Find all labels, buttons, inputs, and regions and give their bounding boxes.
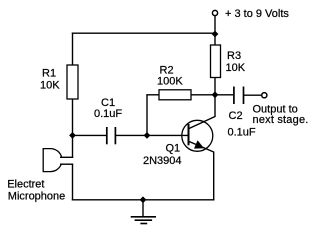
wire: node D down to R3 [214, 34, 216, 46]
transistor Q1 collector lead [189, 116, 216, 128]
svg-text:+ 3 to 9 Volts: + 3 to 9 Volts [225, 8, 289, 20]
transistor Q1 body circle [182, 120, 213, 151]
svg-text:10K: 10K [40, 80, 60, 92]
label Electret Microphone [7, 179, 65, 203]
svg-text:Electret: Electret [7, 179, 44, 191]
label Q1 2N3904 [143, 142, 182, 167]
microphone bottom lead [60, 163, 73, 165]
svg-text:R3: R3 [227, 50, 241, 62]
wire: mic bottom lead down to bottom rail [72, 164, 74, 200]
label R3 10K [226, 50, 246, 74]
microphone MIC body [43, 149, 61, 172]
svg-text:2N3904: 2N3904 [143, 155, 182, 167]
output label [253, 103, 309, 126]
label R2 100K [157, 65, 183, 88]
node E (ground junction) [140, 196, 147, 203]
wire: bottom rail [72, 199, 215, 201]
transistor Q1 base bar [188, 124, 190, 145]
svg-text:Q1: Q1 [166, 142, 181, 154]
wire: node C down to Q1 collector [214, 95, 216, 117]
ground [131, 200, 156, 224]
transistor Q1 emitter lead [189, 141, 214, 152]
power terminal [212, 10, 217, 15]
svg-text:C2: C2 [229, 110, 243, 122]
node C [212, 91, 219, 98]
wire: to R2 left lead [146, 94, 159, 96]
svg-text:next stage.: next stage. [253, 114, 309, 126]
svg-text:C1: C1 [101, 97, 115, 109]
svg-text:10K: 10K [226, 62, 246, 74]
svg-text:0.1uF: 0.1uF [94, 108, 122, 120]
node D [212, 31, 219, 38]
resistor R3 [211, 45, 221, 78]
label C1 0.1uF [94, 97, 122, 120]
wire: top rail down to R1 [72, 33, 74, 66]
svg-text:0.1uF: 0.1uF [228, 127, 256, 139]
wire: node B up to R2 level [146, 95, 148, 136]
output terminal [262, 93, 267, 98]
wire: R2 right lead to node C [191, 94, 215, 96]
microphone top lead [60, 156, 73, 158]
svg-text:Microphone: Microphone [8, 190, 65, 202]
node A [69, 132, 76, 139]
wire: node A to C1 [73, 134, 107, 136]
wire: top rail [72, 32, 215, 34]
wire: C2 to output terminal [244, 94, 262, 96]
label C2 0.1uF [228, 110, 256, 139]
label R1 10K [40, 68, 60, 92]
wire: node C to C2 [215, 94, 234, 96]
wire: R1 to mic (through node A) [72, 99, 74, 158]
wire: node C up to R3 [214, 77, 216, 95]
resistor R1 [67, 65, 78, 99]
resistor R2 [159, 90, 191, 100]
wire: power terminal to node D [214, 16, 216, 34]
transistor Q1 emitter arrow [194, 140, 204, 148]
capacitor C1 [107, 127, 116, 144]
node B [144, 132, 151, 139]
svg-text:100K: 100K [157, 76, 183, 88]
capacitor C2 [234, 87, 244, 105]
svg-text:R1: R1 [42, 68, 56, 80]
wire: emitter down to bottom rail [213, 152, 215, 201]
wire: C1 to Q1 base [116, 134, 188, 136]
